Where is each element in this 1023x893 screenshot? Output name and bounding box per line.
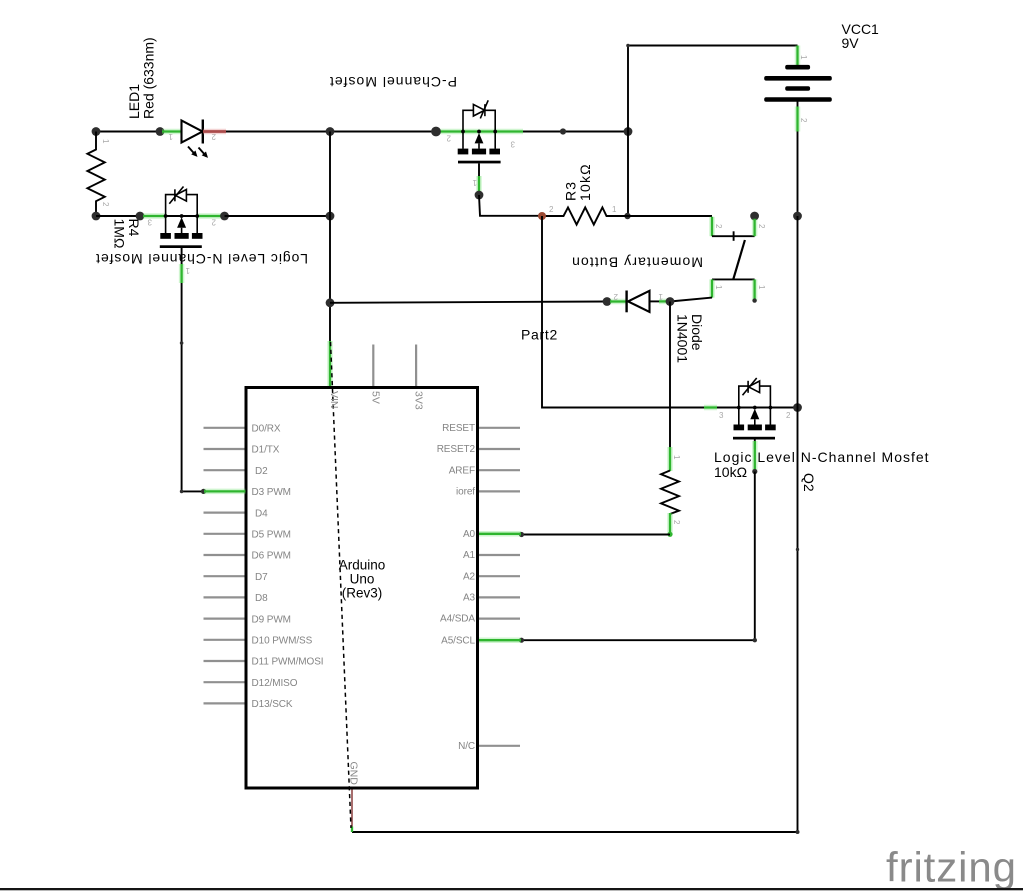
wire green resistor top leg [667,447,673,471]
wire green Q2 gate leg [752,441,758,470]
svg-text:ioref: ioref [456,487,475,498]
svg-text:A4/SDA: A4/SDA [440,614,475,625]
wire Q2 pin3 to pin2 rail [717,407,798,409]
wire GND rail right vertical [352,216,798,832]
svg-text:Logic Level N-Channel Mosfet: Logic Level N-Channel Mosfet [95,251,308,267]
svg-text:A0: A0 [463,529,476,540]
svg-text:D0/RX: D0/RX [252,424,281,435]
svg-text:R41MΩ: R41MΩ [112,219,143,249]
Arduino left pin legs D0-D13 [204,428,245,704]
svg-text:D10 PWM/SS: D10 PWM/SS [252,636,313,647]
wire Q1 gate down [181,248,183,266]
wire green Q1 leg pin3 [143,213,165,219]
wire Q2 gate down [754,440,756,450]
svg-text:Arduino: Arduino [339,558,386,573]
svg-text:Uno: Uno [350,572,375,587]
node corner Q2 gate wire [753,638,757,642]
LED LED1 triangle [182,121,203,143]
node Q1 gate wire joint [180,341,184,345]
svg-text:2: 2 [549,205,554,214]
wire green resistor bottom leg [667,513,673,535]
svg-text:3V3: 3V3 [413,391,425,410]
svg-text:1: 1 [672,455,681,460]
resistor 10k vertical (pull-down) [661,471,679,515]
wire resistor to A0 [522,534,670,536]
Arduino top pin legs 5V 3V3 [373,345,416,387]
svg-text:D7: D7 [255,572,268,583]
svg-text:D8: D8 [255,593,268,604]
svg-text:1: 1 [612,205,617,214]
transistor Q2 Logic Level N-Channel Mosfet symbol [733,378,776,440]
wire diode node down to resistor [669,302,671,448]
svg-text:10kΩ: 10kΩ [714,464,747,480]
Arduino right pin legs [479,428,520,746]
svg-text:2: 2 [101,202,110,207]
svg-text:D4: D4 [255,508,268,519]
wire Q1 pin2 to VIN branch [225,215,331,217]
svg-text:1: 1 [757,285,766,290]
transistor Q1 Logic Level N-Channel Mosfet symbol [160,187,203,249]
node LED pin1 junction [156,127,165,136]
svg-text:2: 2 [757,224,766,229]
svg-text:D11 PWM/MOSI: D11 PWM/MOSI [252,657,324,668]
svg-text:1: 1 [799,55,808,60]
node A0 wire end [519,532,524,537]
wire top rail to battery branch [226,131,628,133]
svg-text:2: 2 [714,224,723,229]
node R4 bottom corner [92,212,101,221]
wire green P-mosfet pins 2-3 [439,129,523,135]
switch S1 Momentary Button [712,217,757,303]
svg-text:3: 3 [719,411,724,420]
wire diode row horizontal [330,302,607,303]
node battery negative junction [793,212,802,221]
svg-text:1: 1 [101,139,110,144]
wire Q2 gate to A5 [522,472,755,641]
svg-text:9V: 9V [842,35,860,51]
wire Q1 gate to D3 [182,283,203,491]
Arduino Uno (Rev3) body [246,388,478,789]
wire battery branch vertical [627,46,629,217]
ratsnest dashed VIN-GND [331,342,352,828]
svg-text:R310kΩ: R310kΩ [563,163,594,201]
svg-text:2: 2 [799,118,808,123]
svg-text:D2: D2 [255,466,268,477]
wire U1 gate down [478,163,480,178]
wire green A5 leg [479,637,521,643]
node GND rail corner [796,830,800,834]
node VIN branch at y216 [326,212,335,221]
wire green U1 gate leg [476,176,482,191]
node top rail / VIN branch [326,127,335,136]
node mosfet Q1 pin3 junction [136,212,145,221]
svg-text:D6 PWM: D6 PWM [252,551,291,562]
node GND rail joint [796,548,799,551]
svg-text:Q2: Q2 [801,473,817,492]
node VIN branch diode-row junction [326,298,335,307]
svg-text:1: 1 [658,292,663,301]
svg-text:LED1Red (633nm): LED1Red (633nm) [126,37,157,119]
node top rail meets battery vertical [624,127,633,136]
node Q2 pin2 junction [793,403,802,412]
svg-text:D1/TX: D1/TX [252,445,280,456]
wire VIN branch vertical [329,132,331,343]
node wire joint right of P-mosfet [560,128,566,134]
svg-text:VIN: VIN [328,391,340,409]
svg-text:5V: 5V [370,391,382,404]
svg-text:A2: A2 [463,571,476,582]
svg-text:Logic Level N-Channel Mosfet: Logic Level N-Channel Mosfet [714,449,930,465]
battery VCC1 [764,46,832,217]
bottom rule [0,888,1023,890]
svg-text:GND: GND [348,762,360,786]
svg-text:2: 2 [672,520,681,525]
svg-text:D3 PWM: D3 PWM [252,487,291,498]
svg-text:D5 PWM: D5 PWM [252,530,291,541]
node Q1 gate wire corner [180,490,184,494]
svg-text:A5/SCL: A5/SCL [441,635,475,646]
node Q1 pin2 junction [220,212,229,221]
node Q2 gate wire joint [752,469,757,474]
node battery top corner [626,44,630,48]
diode D1 1N4001 [603,291,675,313]
wire diode to button [670,298,712,302]
wire R3 node down (Part2 net) [542,216,705,408]
svg-text:N/C: N/C [458,741,475,752]
resistor R4 1M vertical [87,132,104,217]
wire green Q1 leg pin2 [198,213,221,219]
node U1 gate wire joint [475,191,484,200]
svg-text:Part2: Part2 [521,327,558,343]
node D3 wire end [201,489,206,494]
node P-mosfet pin2 junction [431,127,441,137]
svg-text:D12/MISO: D12/MISO [252,678,298,689]
svg-text:A1: A1 [463,550,476,561]
svg-text:Momentary Button: Momentary Button [571,255,703,271]
transistor U1 P-Channel Mosfet symbol [458,100,501,163]
wire GND red segment [351,789,353,831]
node button pin2 right junction [750,212,759,221]
svg-text:1: 1 [168,132,173,141]
wire battery top [628,45,798,47]
wire green GND tip [351,827,353,833]
svg-text:A3: A3 [463,593,476,604]
svg-text:AREF: AREF [449,465,475,476]
wire green D3 leg [204,489,246,495]
svg-text:3: 3 [147,218,152,227]
svg-text:2: 2 [613,292,618,301]
wire green LED leg 1 [162,129,181,135]
LED LED1 cathode bar [202,120,204,144]
resistor R3 10k horizontal [542,207,712,224]
svg-text:fritzing: fritzing [886,844,1017,891]
node A5 wire end [519,638,524,643]
svg-text:2: 2 [786,411,791,420]
svg-text:RESET2: RESET2 [437,444,476,455]
wire green Q2 pin3 leg [704,405,717,411]
wire top-left horizontal (node LED anode) [96,131,160,133]
svg-text:2: 2 [446,134,451,143]
svg-text:Diode1N4001: Diode1N4001 [675,314,706,363]
wire y216 from R4 to mosfet [96,215,139,217]
node top-left corner [92,127,101,136]
wire green Q1 gate leg [179,264,185,283]
LED LED1 emission arrows [188,147,208,158]
node resistor-A0 corner (green) [667,532,672,537]
svg-text:D13/SCK: D13/SCK [252,699,293,710]
svg-text:P-Channel Mosfet: P-Channel Mosfet [329,74,457,90]
svg-text:RESET: RESET [442,423,475,434]
svg-text:2: 2 [211,218,216,227]
svg-text:3: 3 [510,140,515,149]
svg-text:D9 PWM: D9 PWM [252,614,291,625]
wire green A0 leg [479,531,521,537]
wire green VIN leg [327,341,333,387]
wire red segment LED cathode [203,129,226,135]
svg-text:1: 1 [714,285,723,290]
wire U1 gate to R3 node [479,195,542,216]
node battery branch bottom [624,213,630,219]
svg-text:(Rev3): (Rev3) [342,586,383,601]
node R3 pin2 (red joint) [538,212,546,220]
